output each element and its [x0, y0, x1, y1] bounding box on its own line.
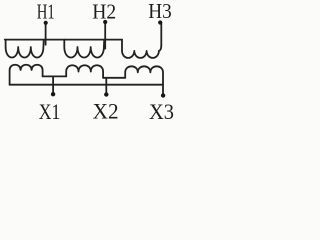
terminal dot H3 [158, 20, 162, 24]
wire: H2 lead [104, 22, 106, 48]
winding H3-H1 (top coil 3) [122, 45, 161, 58]
wire: link coil2-coil3 (X2 junction) [103, 77, 125, 79]
svg-text:H1: H1 [37, 0, 55, 23]
wire: H3 lead [160, 23, 162, 46]
terminal dot X1 [51, 92, 55, 96]
wire: H1 lead [45, 23, 47, 45]
svg-text:H3: H3 [148, 0, 172, 23]
winding X1 side (bottom coil 1) [10, 65, 43, 85]
winding H2-H3 (top coil 2) [64, 40, 104, 58]
svg-text:X1: X1 [39, 99, 61, 124]
terminal dot H1 [44, 21, 48, 25]
terminal dot X2 [104, 92, 108, 96]
svg-text:H2: H2 [92, 0, 116, 23]
terminal dot X3 [161, 93, 165, 97]
wire: link coil1-coil2 (X1 junction) [43, 75, 67, 77]
wire: X2 lead [105, 78, 107, 93]
terminal dot H2 [103, 20, 107, 24]
wire: top delta bus H-side [5, 39, 122, 41]
svg-text:X3: X3 [149, 99, 174, 124]
svg-text:X2: X2 [93, 99, 119, 124]
winding X3 side (bottom coil 3) [125, 66, 163, 94]
wire: bottom wrap-around bus X-side [10, 84, 163, 86]
winding X2 side (bottom coil 2) [66, 65, 103, 78]
winding H1-H2 (top coil 1) [6, 40, 44, 58]
paper background [0, 0, 182, 129]
wire: X1 lead [52, 77, 54, 94]
wire: step down to top coil 3 [121, 40, 123, 51]
